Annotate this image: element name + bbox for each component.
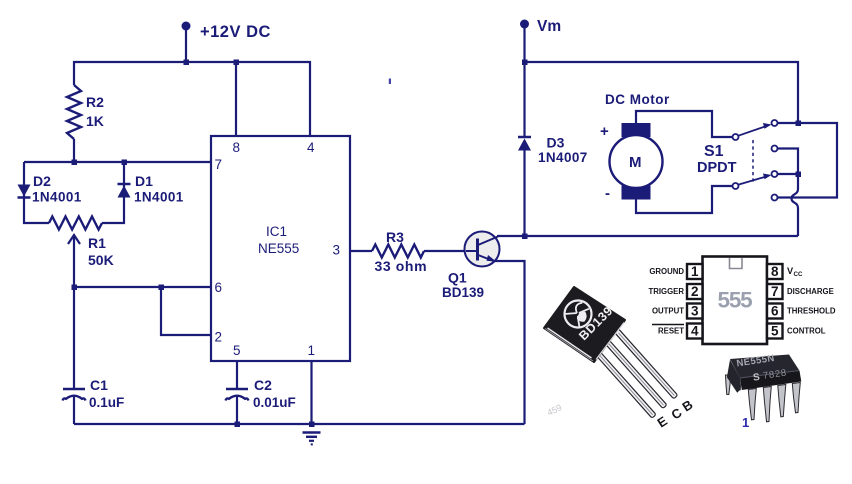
wire Q1 emitter run	[494, 261, 525, 424]
pole contacts	[733, 134, 739, 140]
notch	[730, 258, 743, 269]
logo circle	[559, 295, 597, 333]
wire throw1b link	[778, 149, 799, 175]
svg-text:NE555: NE555	[258, 241, 299, 256]
wire Vm rail	[525, 62, 799, 123]
left end face	[727, 360, 740, 393]
svg-text:50K: 50K	[88, 252, 114, 268]
svg-text:BD139: BD139	[442, 285, 484, 300]
op-amp: none; IC1 NE555 box	[211, 136, 350, 361]
wire bottom ground rail	[74, 423, 525, 425]
svg-text:6: 6	[215, 280, 223, 295]
svg-text:555: 555	[718, 288, 753, 313]
svg-text:2: 2	[215, 330, 223, 345]
wire Q1 collector run	[497, 235, 798, 237]
back-left pin	[726, 375, 731, 395]
svg-text:1N4001: 1N4001	[134, 190, 184, 205]
RESET overline	[652, 324, 684, 326]
resistor R3	[372, 245, 424, 258]
pin 1 box	[687, 264, 703, 279]
wire pin3 to R3	[350, 250, 372, 252]
node Vm terminal	[520, 20, 529, 63]
wire row to pin6	[74, 286, 211, 288]
IC NE555 DIP package photo	[726, 353, 802, 430]
ground	[303, 433, 321, 445]
svg-text:1: 1	[691, 264, 699, 279]
svg-text:C2: C2	[254, 377, 272, 393]
svg-text:IC1: IC1	[266, 224, 287, 239]
wire motor bottom lead	[636, 186, 733, 213]
capacitor C2	[226, 389, 249, 401]
svg-text:OUTPUT: OUTPUT	[652, 307, 684, 316]
svg-text:S1: S1	[704, 143, 724, 160]
svg-text:+: +	[600, 123, 609, 140]
front band	[740, 371, 801, 390]
edge highlights	[548, 328, 592, 358]
transistor BD139 package photo	[544, 287, 696, 431]
svg-text:8: 8	[771, 264, 779, 279]
back mid pin stub	[736, 381, 742, 390]
wire row to pin7	[24, 161, 211, 163]
svg-text:R1: R1	[88, 235, 106, 251]
svg-text:DC Motor: DC Motor	[605, 92, 670, 107]
IC body	[703, 257, 768, 345]
wire R3 to Q1 base	[424, 250, 466, 252]
svg-text:D1: D1	[135, 173, 153, 189]
svg-text:M: M	[629, 154, 642, 171]
svg-text:CC: CC	[794, 271, 803, 278]
svg-text:DISCHARGE: DISCHARGE	[787, 287, 834, 296]
pin 3 box	[687, 304, 703, 319]
svg-text:8: 8	[233, 140, 241, 155]
svg-text:THRESHOLD: THRESHOLD	[787, 307, 836, 316]
wire R1 wiper	[73, 238, 75, 287]
svg-text:C1: C1	[90, 377, 108, 393]
pin 2 box	[687, 284, 703, 299]
svg-text:1: 1	[308, 343, 316, 358]
svg-text:-: -	[605, 185, 610, 202]
potentiometer wiper arrow	[68, 235, 80, 244]
blade 1	[738, 126, 767, 136]
resistor R2	[67, 85, 81, 139]
pin 2 front	[763, 387, 771, 422]
diode D1	[118, 184, 131, 198]
wire C2 branch	[236, 361, 238, 389]
wire top +12V rail	[74, 62, 310, 136]
svg-text:7: 7	[215, 157, 223, 172]
svg-text:R3: R3	[386, 229, 404, 245]
svg-text:0.01uF: 0.01uF	[253, 395, 296, 410]
svg-text:2: 2	[691, 284, 699, 299]
diode D3	[518, 137, 531, 151]
svg-text:CONTROL: CONTROL	[787, 327, 826, 336]
svg-text:RESET: RESET	[658, 327, 684, 336]
svg-text:Vm: Vm	[537, 18, 561, 35]
svg-text:1N4001: 1N4001	[32, 190, 82, 205]
pin 6 box	[767, 304, 783, 319]
pin 5 box	[767, 324, 783, 339]
wire C1 branch	[73, 287, 75, 389]
wire pin8 drop	[235, 62, 237, 136]
node +12V terminal	[182, 22, 191, 63]
throw contacts	[772, 120, 778, 126]
package body	[544, 287, 625, 362]
svg-text:+12V DC: +12V DC	[200, 23, 271, 41]
blade 2	[738, 176, 767, 185]
wire throw2a link	[778, 173, 799, 175]
svg-text:R2: R2	[86, 94, 104, 110]
svg-text:4: 4	[307, 140, 315, 155]
svg-text:TRIGGER: TRIGGER	[648, 287, 684, 296]
svg-text:7: 7	[771, 284, 779, 299]
svg-text:5: 5	[233, 343, 241, 358]
switch S1 DPDT	[733, 120, 778, 201]
svg-text:6: 6	[771, 303, 779, 318]
svg-text:33 ohm: 33 ohm	[375, 258, 428, 274]
stray apostrophe mark	[389, 79, 391, 85]
leads	[591, 327, 678, 419]
svg-text:0.1uF: 0.1uF	[89, 395, 124, 410]
wire pin1 drop	[310, 361, 312, 424]
svg-text:1N4007: 1N4007	[538, 150, 588, 165]
svg-text:4: 4	[691, 323, 699, 338]
diode D2	[18, 185, 31, 198]
wire hop to bottom return	[792, 174, 799, 236]
wire pin7 row	[73, 139, 75, 162]
resistor R1 (pot)	[49, 217, 102, 230]
pin 7 box	[767, 284, 783, 299]
svg-text:5: 5	[771, 323, 779, 338]
pin 4 box	[687, 324, 703, 339]
wire throw1a to right loop	[778, 123, 838, 198]
top face	[730, 355, 800, 379]
transistor Q1	[465, 232, 500, 267]
pin 4 front	[792, 383, 800, 413]
svg-text:1: 1	[742, 415, 749, 430]
pin 1 front	[748, 389, 756, 420]
pin 3 front	[778, 385, 786, 417]
svg-text:Q1: Q1	[448, 270, 467, 286]
svg-text:3: 3	[691, 303, 699, 318]
svg-text:DPDT: DPDT	[697, 160, 737, 176]
svg-text:D3: D3	[547, 135, 565, 151]
wire D1 branch	[102, 162, 124, 223]
wire D2 branch	[24, 162, 49, 223]
wire D3 branch	[523, 62, 525, 137]
svg-text:3: 3	[333, 243, 341, 258]
555 pinout diagram	[648, 257, 835, 345]
svg-text:GROUND: GROUND	[649, 267, 684, 276]
gang dashed link	[752, 140, 754, 184]
svg-text:1K: 1K	[86, 113, 104, 129]
wire motor top lead	[636, 111, 733, 137]
capacitor C1	[63, 389, 86, 401]
svg-text:D2: D2	[33, 173, 51, 189]
wire pin2 link	[161, 287, 211, 335]
DC motor M	[610, 123, 663, 200]
pin 8 box	[767, 264, 783, 279]
